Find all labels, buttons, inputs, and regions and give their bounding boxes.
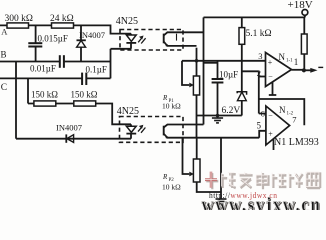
svg-text:IN4007: IN4007 [56,123,82,133]
wire pin3 net [182,60,266,62]
svg-text:4N25: 4N25 [116,16,138,27]
LED of U1 [126,34,136,49]
wire reference vertical to pin6 [258,71,260,113]
wire bottom loop [16,138,131,140]
svg-text:N: N [279,105,286,115]
capacitor 0.01uF [30,55,64,73]
svg-text:10 kΩ: 10 kΩ [162,102,181,111]
watermark row 1 (simulated CJK characters) [201,172,321,217]
svg-text:1-1: 1-1 [286,59,293,64]
wire C [0,77,111,79]
svg-text:150 kΩ: 150 kΩ [31,90,58,100]
output arrow [304,67,323,72]
wire LED1 cathode return [111,48,132,50]
resistor R 24k [52,23,74,28]
svg-text:0.01µF: 0.01µF [30,64,56,74]
svg-text:2: 2 [257,68,261,78]
power stub of N1-1 [269,82,277,95]
zener diode 6.2V [222,92,247,116]
wire 150k chain [28,104,131,125]
node output junction [302,68,306,72]
resistor 5.1k [239,17,272,92]
svg-text:−: − [268,72,273,81]
wire B [0,61,111,63]
wire RP2 to ground [220,138,222,199]
resistor R 300k [7,23,29,28]
svg-text:+18V: +18V [288,0,313,11]
svg-text:C: C [1,83,7,93]
svg-text:1: 1 [294,57,299,67]
optocoupler U1 4N25 (upper) [116,16,183,50]
capacitor 10uF [204,61,239,116]
svg-text:150 kΩ: 150 kΩ [71,90,98,100]
svg-text:N1 LM393: N1 LM393 [274,137,319,148]
svg-text:5.1 kΩ: 5.1 kΩ [246,29,272,39]
svg-text:www.syjxw.cn: www.syjxw.cn [201,194,321,210]
resistor R 150k (first) [34,101,56,106]
wire junction vertical (LED1 cathode / B / C common) [110,49,112,79]
resistor R 150k (second) [74,101,96,106]
svg-text:N: N [279,52,286,62]
wire opto1 emitter down to RP1 [196,48,198,76]
svg-text:5: 5 [257,121,262,131]
ground (bottom) [216,199,227,204]
wire pin2 stub [259,76,266,78]
diode IN4007 (lower, horizontal) [56,123,82,143]
wire feedback loop N1-2 [259,99,305,125]
resistor pull-up (output) [301,17,307,70]
op-amp N1-2 (LM393 second comparator) [257,105,297,145]
phototransistor of U1 [164,32,204,46]
diode IN4007 (upper, vertical) [77,25,105,61]
phototransistor of U2 [164,125,260,139]
wire rail down to collectors [203,17,205,124]
light arrow of U2 [138,125,145,133]
svg-text:R: R [162,173,168,181]
svg-text:6: 6 [261,109,265,119]
svg-text:24 kΩ: 24 kΩ [50,14,74,24]
svg-text:+: + [268,129,273,138]
wire N1-1 output [292,69,305,71]
wire A (top input line) [0,25,131,33]
svg-text:10µF: 10µF [219,70,238,80]
svg-text:4N25: 4N25 [117,106,139,117]
svg-text:3: 3 [258,51,262,61]
potentiometer RP1 10k [162,61,200,116]
wire pin6 stub [259,113,266,115]
svg-text:6.2V: 6.2V [222,106,241,116]
svg-text:300 kΩ: 300 kΩ [5,14,33,24]
LED of U2 [126,124,136,138]
wire +18V rail [204,16,305,18]
wire B down to bottom loop [15,62,17,139]
power stub of N1-2 [273,139,275,150]
+18V supply terminal [288,0,313,17]
svg-text:10 kΩ: 10 kΩ [162,183,181,192]
capacitor 0.1uF [82,65,107,86]
wire reference to pin2 [242,70,259,72]
svg-text:IN4007: IN4007 [79,30,105,40]
svg-text:0.1µF: 0.1µF [86,65,107,75]
node pin3 junction [195,59,199,63]
capacitor 0.015uF [28,25,68,61]
svg-text:7: 7 [292,114,296,124]
light arrow of U1 [138,36,145,44]
svg-text:0.015µF: 0.015µF [38,34,68,44]
svg-text:+: + [268,58,273,67]
wire C to 150k chain [27,78,29,103]
svg-text:−: − [268,111,273,120]
wire pin5 [259,131,266,138]
potentiometer RP2 10k [162,138,221,192]
ground [212,114,223,123]
op-amp N1-1 (LM393 first comparator) [257,51,299,87]
optocoupler U2 4N25 (lower) [117,106,183,142]
wire opto2 collector junction vertical [196,116,198,138]
svg-text:B: B [1,50,7,60]
wire ground bus [197,115,242,117]
